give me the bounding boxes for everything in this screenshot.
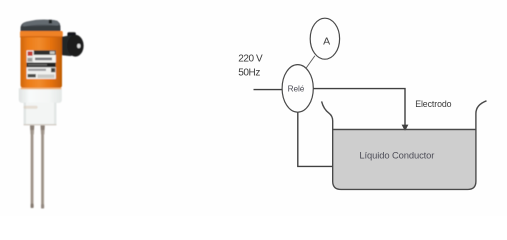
hex section bottom edge: [24, 124, 57, 125]
svg-text:A: A: [323, 36, 330, 48]
liquid fill: [334, 130, 476, 189]
label row: red logo box: [27, 51, 33, 57]
electrode rod ferrule 2: [41, 125, 45, 134]
cable gland neck: [67, 32, 75, 37]
wire relay to tank (bottom electrode): [298, 112, 333, 166]
relay Relé: [282, 65, 313, 113]
svg-text:Relé: Relé: [288, 84, 305, 94]
electrode rod 1 tip: [31, 204, 34, 209]
electrode rod 2 tip: [41, 204, 44, 209]
wire relay to ammeter: [306, 56, 315, 69]
label row: mid strip: [27, 67, 56, 72]
hex section top shadow: [24, 106, 38, 109]
sensor cap notch: [49, 20, 52, 24]
svg-text:220 V: 220 V: [238, 54, 263, 65]
wire relay to electrode (top): [313, 89, 405, 126]
product label sticker: [27, 50, 56, 78]
tank outline: [322, 101, 487, 190]
label row: type text strip: [34, 55, 56, 62]
label row: top dark strip: [34, 50, 56, 54]
cable gland highlight: [77, 44, 80, 48]
collar top orange reflection: [21, 88, 62, 90]
label row: ifm logo strip: [27, 73, 56, 79]
label row: dark band: [27, 63, 56, 68]
white adapter collar: [19, 88, 62, 103]
sensor cap top face highlight: [23, 20, 60, 26]
electrode rod 1: [31, 130, 34, 208]
liquid surface line: [333, 129, 476, 131]
svg-text:Líquido Conductor: Líquido Conductor: [359, 150, 434, 161]
cable gland nut: [62, 35, 73, 56]
sensor cap dark rim band: [21, 26, 61, 32]
wire supply to relay: [254, 89, 283, 91]
sensor body (orange housing): [21, 31, 63, 89]
svg-text:50Hz: 50Hz: [238, 67, 260, 78]
sensor body top flange: [20, 31, 63, 37]
cable gland dome: [67, 35, 83, 57]
electrode rod ferrule 1: [30, 125, 34, 134]
electrode rod 2: [41, 130, 44, 209]
svg-text:Electrodo: Electrodo: [415, 99, 451, 109]
sensor cap: [21, 19, 61, 31]
electrode arrowhead: [402, 125, 409, 132]
white hex section: [24, 103, 57, 126]
ammeter A: [310, 18, 339, 59]
